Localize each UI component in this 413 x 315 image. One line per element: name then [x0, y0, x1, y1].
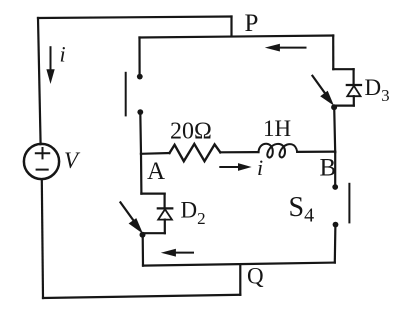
wire Q step (outer bottom up to inner bottom at node Q)	[239, 265, 241, 295]
wire outer top (source top to P step)	[38, 17, 232, 19]
current arrow i downward (source branch)	[46, 46, 54, 84]
wire node A down to D2 jog	[140, 154, 143, 194]
wire right branch (inner top down to D3 jog)	[332, 36, 334, 70]
resistor R 20ohm zigzag	[170, 144, 221, 161]
wire D3 dot down to node B	[334, 107, 335, 152]
wire jog down to D3 cathode	[353, 69, 355, 85]
wire node A to resistor	[141, 152, 170, 155]
wire left branch upper (inner top to switch)	[138, 38, 140, 74]
inductor L 1H (three humps with two bottom loops)	[259, 144, 298, 158]
wire D2 bottom jog	[143, 232, 165, 234]
svg-text:1H: 1H	[263, 116, 291, 141]
current arrow pointing left (bottom rail)	[161, 249, 194, 257]
wire node B down to switch S4	[334, 152, 336, 187]
wire switch to node A	[139, 112, 142, 154]
firing arrow pointing at D3 branch	[312, 75, 334, 106]
switch S4 blade (open)	[348, 184, 350, 223]
current arrow i pointing right (A to B through R-L)	[219, 163, 251, 171]
wire S4 to inner bottom	[334, 225, 337, 263]
wire P step (outer top drops to inner top at node P)	[230, 17, 232, 37]
diode D3 (cathode bar on top, triangle pointing up)	[347, 85, 361, 96]
wire inner top (P rail)	[140, 36, 334, 38]
svg-text:20Ω: 20Ω	[170, 119, 212, 145]
wire inductor to node B	[297, 151, 335, 153]
svg-text:B: B	[320, 154, 337, 181]
svg-text:i: i	[257, 155, 263, 180]
wire D2 anode down	[164, 220, 166, 234]
wire jog down to D2 cathode	[164, 194, 166, 209]
firing arrow pointing at D2 branch	[120, 202, 143, 234]
current arrow pointing left (top rail)	[265, 44, 307, 52]
svg-text:A: A	[147, 158, 165, 185]
wire outer left upper (top corner down to source +)	[38, 18, 41, 144]
svg-text:i: i	[60, 42, 66, 67]
svg-text:Q: Q	[247, 264, 264, 289]
wire D3 bottom jog	[334, 104, 354, 106]
wire outer left lower (source - down to bottom corner)	[42, 179, 43, 298]
wire D2 dot down to inner bottom	[142, 235, 145, 266]
voltage source plus sign	[36, 148, 49, 158]
junction dot below D3	[331, 104, 337, 110]
wire resistor to inductor	[220, 151, 258, 153]
voltage source minus sign	[37, 169, 48, 171]
voltage source V	[24, 144, 59, 179]
wire outer bottom	[43, 295, 240, 298]
switch S1 lower terminal dot	[137, 109, 143, 115]
wire D3 top jog	[333, 68, 353, 70]
switch S1 blade (open, unlabeled)	[125, 73, 127, 116]
diode D2 (cathode bar on top, triangle pointing up)	[158, 208, 173, 219]
wire inner bottom (Q rail)	[143, 263, 335, 266]
switch S4 lower terminal dot	[333, 222, 339, 228]
wire D3 anode down	[353, 96, 355, 105]
wire D2 top jog	[141, 193, 164, 195]
svg-text:P: P	[245, 10, 259, 37]
junction dot below D2	[140, 232, 146, 238]
switch S4 upper terminal dot	[332, 184, 338, 190]
switch S1 upper terminal dot	[137, 74, 143, 80]
